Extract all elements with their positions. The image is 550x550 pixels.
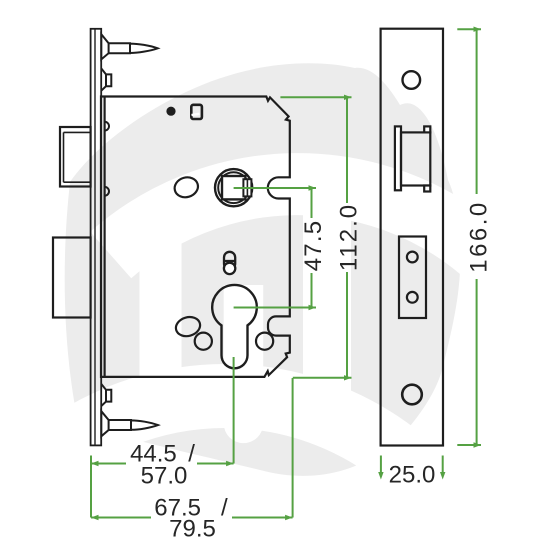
dim 166 line [476, 29, 478, 445]
forend top screw hole [403, 71, 421, 89]
euro cylinder hole [212, 285, 257, 368]
faceplate (side view) [91, 29, 102, 446]
forend latch tab bottom [424, 186, 430, 192]
deadbolt [53, 238, 91, 318]
dim 112 line [346, 97, 348, 378]
svg-text:25.0: 25.0 [389, 462, 436, 489]
svg-text:79.5: 79.5 [169, 516, 216, 543]
pin dot [166, 107, 175, 116]
top adjuster boss [101, 69, 111, 91]
dim 67.5/79.5 line [91, 517, 293, 519]
dim 25 arrows [380, 456, 382, 475]
circle hole below oval [195, 333, 212, 350]
oval hole left of follower [172, 175, 200, 200]
circle hole right of cylinder [256, 333, 273, 350]
svg-text:112.0: 112.0 [336, 203, 363, 271]
forend latch cutout guide bar [395, 126, 401, 190]
dim 47.5 extension stubs [234, 187, 316, 189]
svg-text:57.0: 57.0 [141, 463, 188, 490]
oval hole left of cylinder [174, 314, 203, 339]
dim 47.5 line [311, 188, 313, 308]
latch tab bottom [105, 187, 109, 196]
forend bottom screw hole [402, 385, 422, 405]
svg-text:47.5: 47.5 [300, 220, 327, 272]
faceplate inner line [94, 29, 96, 446]
svg-text:166.0: 166.0 [466, 200, 493, 273]
case front wall [103, 97, 105, 377]
forend deadbolt plate [399, 237, 426, 319]
latch bolt bevel lines [64, 132, 91, 182]
dimension arrowheads [91, 27, 481, 521]
dim 44.5/57 line [91, 463, 234, 465]
bottom fixing screw [101, 411, 108, 436]
backset extension line at faceplate [90, 456, 92, 518]
spindle follower [215, 169, 252, 206]
case depth extension line [292, 378, 294, 518]
forend deadbolt plate hole bottom [407, 292, 418, 303]
backset extension line at cylinder centre [233, 357, 235, 464]
bottom adjuster boss [101, 384, 111, 406]
forend faceplate (front view) [381, 29, 443, 446]
dimension lines [91, 29, 481, 517]
forend latch cutout [401, 132, 430, 185]
dim 166 stubs [457, 28, 481, 30]
clip icon [191, 105, 202, 119]
forend deadbolt plate hole top [407, 252, 418, 263]
forend latch tab top [424, 126, 430, 132]
latch tab top [105, 122, 109, 131]
dim 112 stubs [280, 96, 351, 98]
adjustable strike capsule [224, 252, 235, 269]
lock case body [101, 97, 290, 377]
latch bolt [60, 127, 91, 187]
top fixing screw [101, 34, 108, 59]
